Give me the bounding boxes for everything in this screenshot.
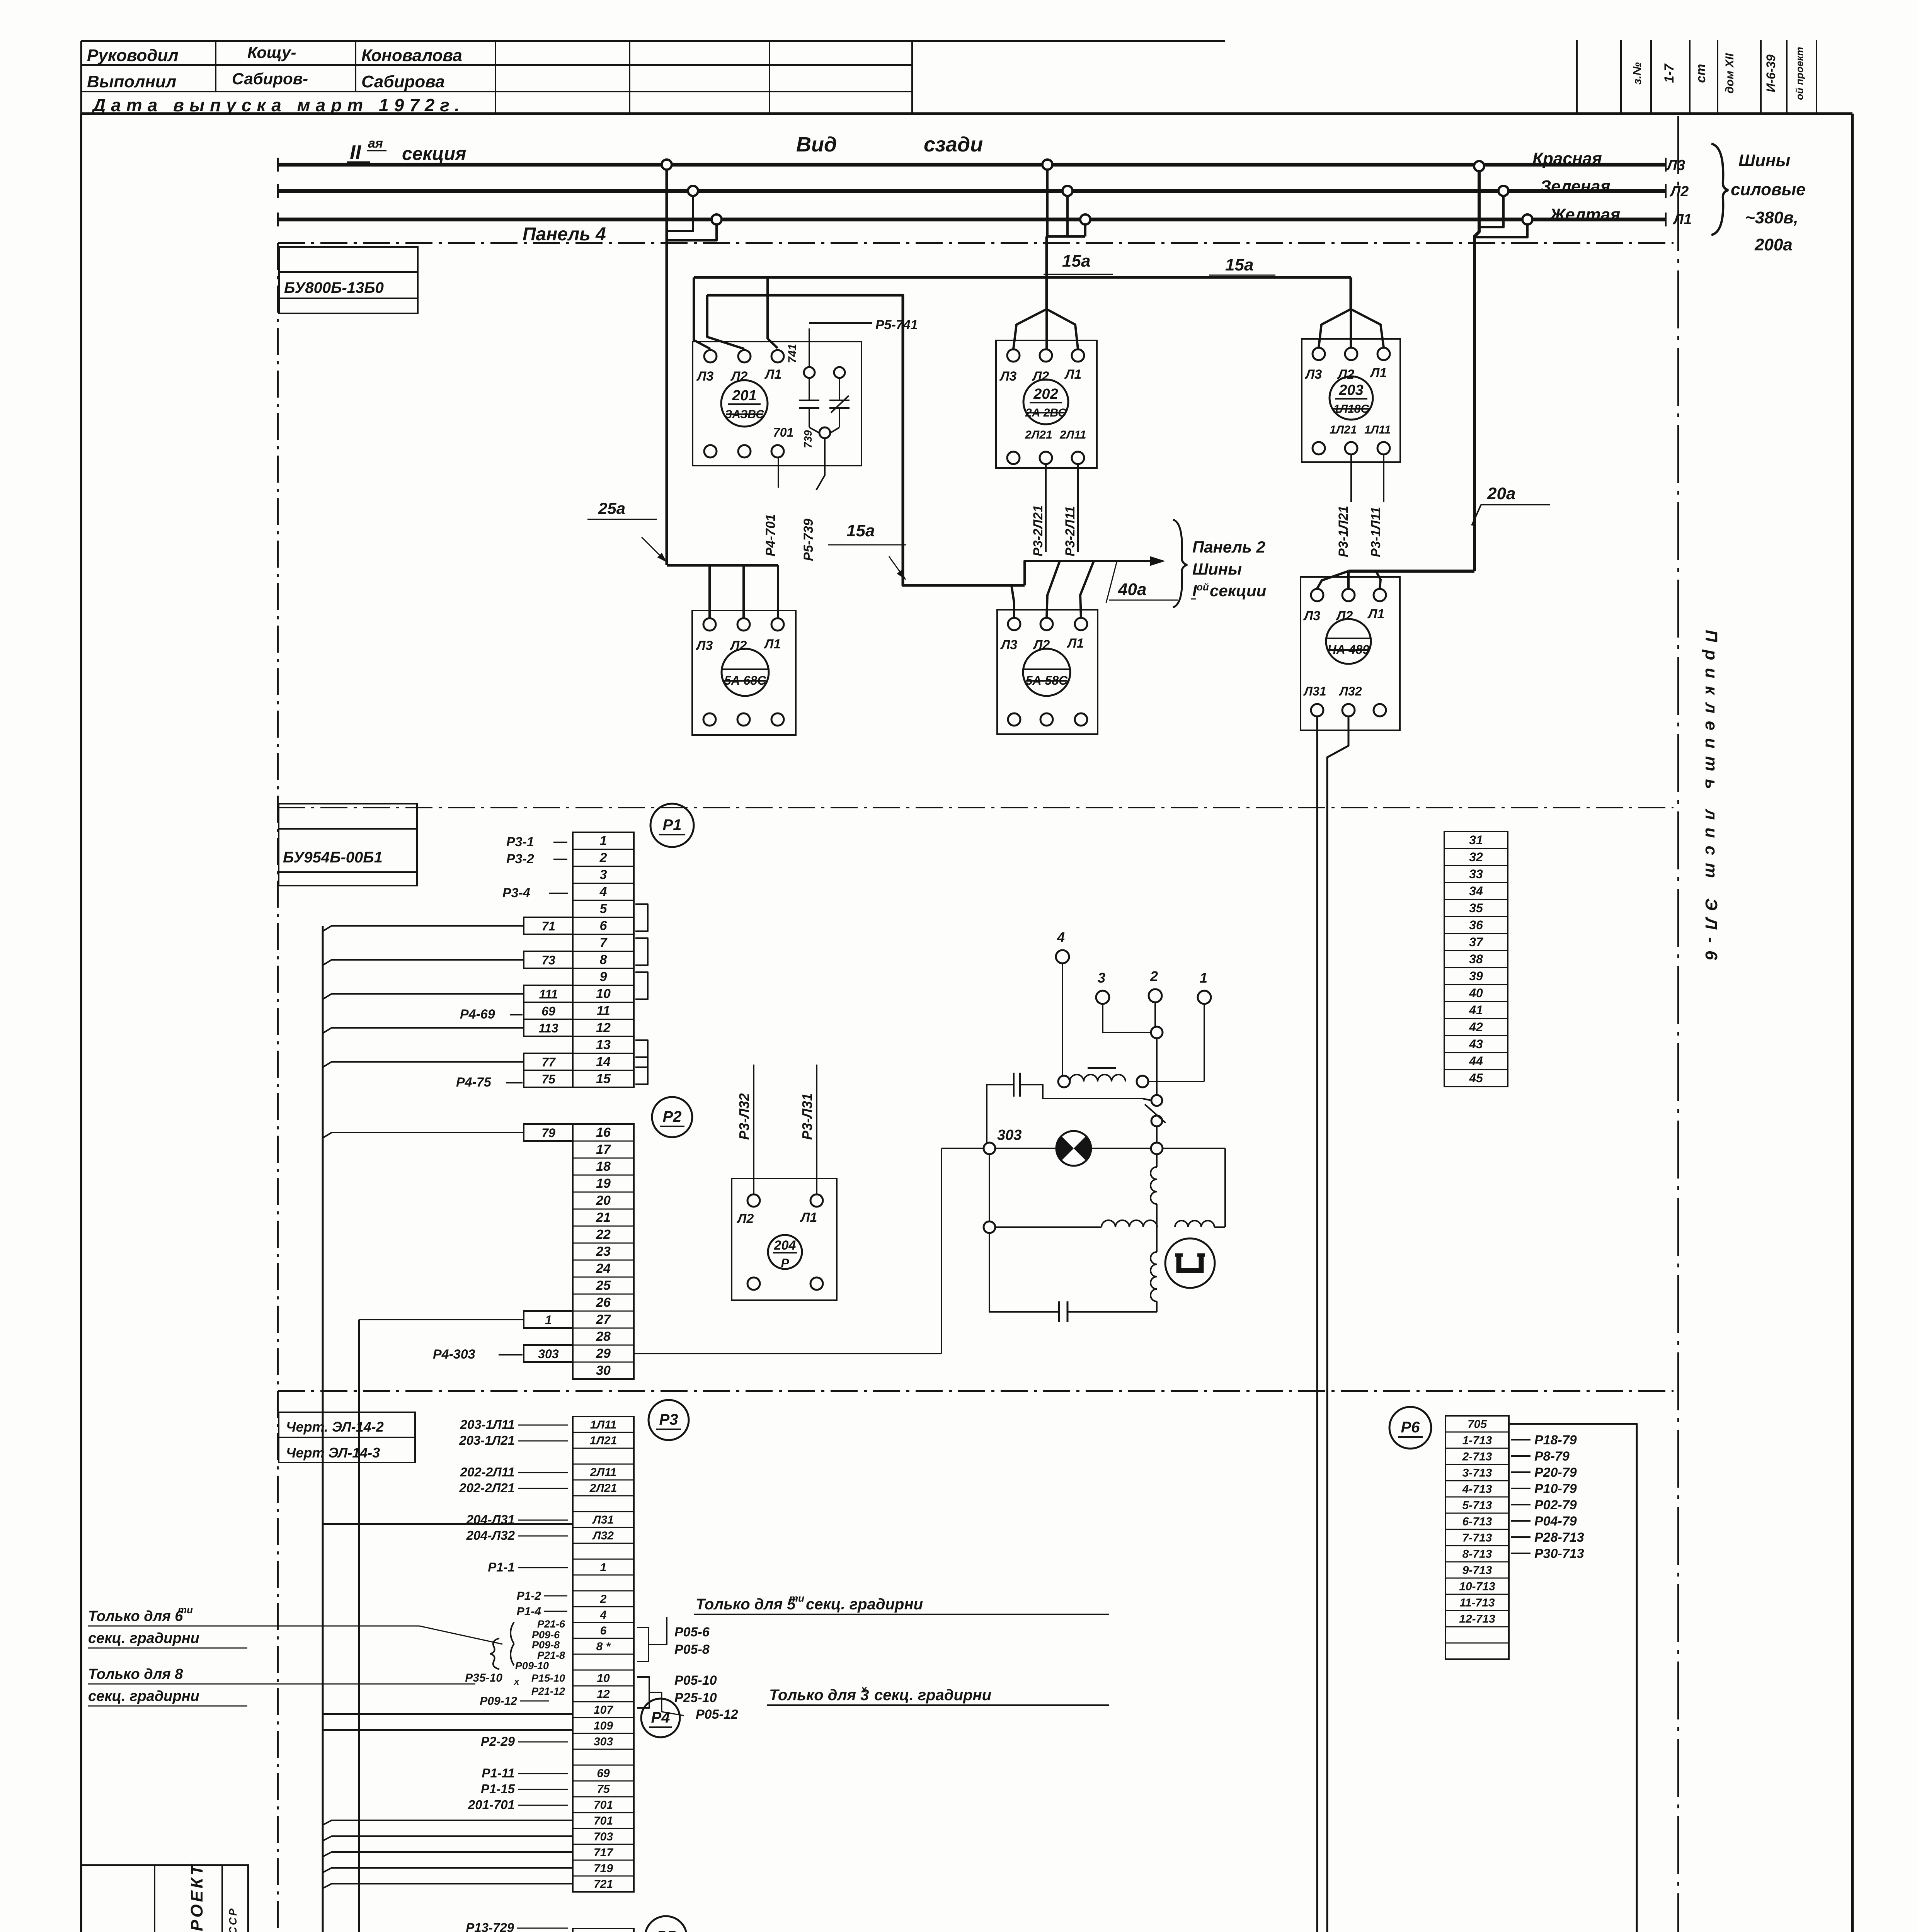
svg-text:Л31: Л31: [1303, 684, 1326, 698]
junction node 2/3: [1151, 1027, 1163, 1038]
node tap L1 middle: [1080, 214, 1090, 224]
harness branches to P3 rows: [323, 1523, 573, 1525]
svg-text:12: 12: [597, 1688, 610, 1701]
svg-text:Коновалова: Коновалова: [361, 46, 462, 65]
svg-text:15а: 15а: [1225, 255, 1253, 274]
terminal 3: [1096, 991, 1109, 1004]
svg-text:202-2Л21: 202-2Л21: [459, 1481, 515, 1495]
svg-text:Л1: Л1: [764, 367, 781, 382]
title block lower-left: [81, 1865, 248, 1932]
svg-text:Л1: Л1: [1672, 211, 1692, 228]
left tap drop wires: [668, 196, 693, 231]
svg-text:13: 13: [596, 1037, 611, 1052]
svg-text:ТЯЖПРОМЭЛЕКТРОПРОЕКТ: ТЯЖПРОМЭЛЕКТРОПРОЕКТ: [187, 1863, 206, 1932]
left link wire to strip: [941, 1148, 942, 1354]
svg-text:2-713: 2-713: [1462, 1451, 1492, 1463]
svg-text:113: 113: [538, 1021, 558, 1035]
svg-text:Л3: Л3: [1666, 157, 1685, 173]
node tap L2 middle: [1062, 186, 1073, 196]
svg-text:Р05-10: Р05-10: [674, 1673, 717, 1688]
svg-text:79: 79: [541, 1126, 555, 1140]
P1 right pair brackets: [635, 904, 648, 931]
svg-text:20а: 20а: [1487, 484, 1515, 503]
svg-text:19: 19: [596, 1176, 611, 1191]
terminal strip 31-45: [1444, 832, 1508, 1087]
svg-text:Дата выпуска март 1972г.: Дата выпуска март 1972г.: [91, 95, 465, 115]
svg-text:Р3-Л31: Р3-Л31: [799, 1093, 815, 1140]
svg-text:БУ954Б-00Б1: БУ954Б-00Б1: [283, 849, 383, 866]
svg-text:х: х: [513, 1677, 520, 1687]
svg-text:2Л11: 2Л11: [590, 1466, 616, 1479]
svg-text:201-701: 201-701: [468, 1798, 515, 1812]
lower junction: [984, 1221, 995, 1233]
svg-text:Р09-12: Р09-12: [480, 1695, 517, 1708]
svg-text:Р4: Р4: [651, 1709, 670, 1726]
svg-text:секция: секция: [402, 144, 466, 164]
svg-text:Р8-79: Р8-79: [1534, 1449, 1570, 1464]
svg-text:Л3: Л3: [1000, 638, 1017, 652]
P6 right labels: [1511, 1439, 1531, 1440]
terminal 4: [1056, 950, 1069, 963]
svg-text:22: 22: [596, 1227, 611, 1242]
terminal strip P1 rows 1-15: [573, 832, 634, 1087]
svg-text:Р04-79: Р04-79: [1534, 1514, 1577, 1529]
svg-text:Р15-10: Р15-10: [531, 1672, 565, 1684]
svg-text:Л1: Л1: [1066, 636, 1084, 651]
svg-text:39: 39: [1469, 969, 1483, 983]
svg-text:73: 73: [541, 953, 555, 967]
svg-text:27: 27: [596, 1312, 611, 1327]
svg-text:Л3: Л3: [1304, 367, 1322, 382]
svg-text:Р3-1Л21: Р3-1Л21: [1336, 506, 1351, 557]
svg-text:Только для 8: Только для 8: [88, 1666, 183, 1682]
svg-text:6: 6: [600, 1624, 607, 1637]
svg-text:Черт ЭЛ-14-3: Черт ЭЛ-14-3: [286, 1445, 380, 1461]
svg-text:1Л21: 1Л21: [590, 1434, 617, 1447]
drop to 201 Л2: [707, 295, 744, 349]
svg-text:Л1: Л1: [1367, 607, 1384, 621]
drop to 201 Л3: [694, 277, 710, 349]
aux contact switch: [1151, 1095, 1162, 1106]
svg-text:26: 26: [596, 1295, 611, 1310]
svg-text:Р1-11: Р1-11: [482, 1766, 515, 1780]
P1 jumper tag boxes: [524, 917, 573, 934]
svg-text:31: 31: [1469, 833, 1483, 847]
svg-text:4: 4: [599, 884, 607, 899]
svg-text:21: 21: [596, 1210, 611, 1225]
svg-text:1Л11: 1Л11: [1364, 423, 1391, 436]
svg-text:Р21-12: Р21-12: [531, 1685, 565, 1697]
svg-text:Красная: Красная: [1532, 149, 1602, 168]
svg-text:202-2Л11: 202-2Л11: [460, 1465, 515, 1479]
top-right rotated header cells: [1576, 40, 1578, 114]
svg-text:33: 33: [1469, 867, 1483, 881]
svg-text:1Л11: 1Л11: [590, 1418, 616, 1431]
svg-text:203-1Л21: 203-1Л21: [459, 1433, 515, 1447]
svg-text:40: 40: [1469, 986, 1483, 1000]
svg-text:Р5: Р5: [657, 1928, 676, 1932]
svg-text:40а: 40а: [1118, 580, 1146, 599]
svg-text:5: 5: [600, 901, 608, 916]
svg-text:Руководил: Руководил: [87, 46, 179, 65]
wire Р4-701: [778, 458, 779, 488]
svg-text:75: 75: [597, 1783, 610, 1796]
svg-text:Желтая: Желтая: [1549, 205, 1620, 224]
svg-text:17: 17: [596, 1142, 611, 1157]
svg-text:Л1: Л1: [800, 1210, 817, 1225]
svg-text:Р: Р: [781, 1256, 789, 1270]
svg-text:30: 30: [596, 1363, 611, 1378]
drop into 203: [1350, 277, 1352, 309]
contactor block 201 (ЗАЗВС): [693, 342, 861, 466]
P5 circle: [645, 1916, 687, 1932]
terminal strip P1 circle: [650, 804, 694, 847]
svg-text:ст: ст: [1694, 64, 1708, 83]
drawing ref box Черт ЭЛ-14: [279, 1412, 415, 1463]
svg-text:Л31: Л31: [592, 1514, 614, 1526]
svg-text:701: 701: [773, 425, 793, 439]
P4 circle: [641, 1699, 680, 1737]
svg-text:Р10-79: Р10-79: [1534, 1481, 1577, 1496]
svg-text:Р20-79: Р20-79: [1534, 1465, 1577, 1480]
svg-text:15а: 15а: [846, 521, 875, 540]
svg-text:Р02-79: Р02-79: [1534, 1498, 1577, 1512]
svg-text:ая: ая: [368, 136, 383, 151]
svg-text:303: 303: [594, 1735, 613, 1748]
harness trunk A: [322, 926, 324, 1932]
terminal strip P6 rows: [1445, 1416, 1509, 1659]
svg-text:з.№: з.№: [1631, 62, 1644, 85]
svg-text:20: 20: [596, 1193, 611, 1208]
svg-text:Р4-69: Р4-69: [460, 1007, 495, 1022]
20a line to ЧА489: [1348, 570, 1474, 573]
wire 705 to С1 splice: [1509, 1424, 1637, 1932]
node tap L2 left: [688, 186, 698, 196]
svg-text:Кощу-: Кощу-: [247, 43, 296, 61]
svg-text:16: 16: [596, 1125, 611, 1140]
svg-text:секц. градирни: секц. градирни: [874, 1687, 991, 1704]
svg-text:111: 111: [539, 987, 558, 1001]
svg-text:37: 37: [1469, 935, 1484, 949]
terminal strip P5 rows: [573, 1929, 634, 1932]
svg-text:204: 204: [774, 1238, 796, 1253]
terminal 1: [1198, 991, 1211, 1004]
P2 jumper tags: [524, 1124, 573, 1141]
svg-text:1: 1: [600, 1561, 607, 1574]
wire row303 to motor node: [634, 1353, 941, 1354]
svg-text:Шины: Шины: [1192, 560, 1242, 578]
svg-text:28: 28: [596, 1329, 611, 1344]
node tap L1 right: [1522, 214, 1532, 224]
svg-text:717: 717: [594, 1846, 613, 1859]
branches to P1 tags: [323, 926, 524, 931]
svg-text:201: 201: [732, 388, 756, 404]
svg-text:Л32: Л32: [592, 1529, 614, 1542]
bus L3 (Красная): [278, 163, 1666, 167]
svg-text:6: 6: [600, 918, 608, 933]
lower feeder to 5A68C: [667, 564, 778, 567]
svg-text:Л1: Л1: [763, 637, 781, 651]
page frame: [80, 114, 82, 1932]
svg-text:секц. градирни: секц. градирни: [88, 1630, 199, 1646]
svg-text:10: 10: [597, 1672, 610, 1685]
svg-text:2Л21: 2Л21: [1025, 429, 1052, 441]
svg-text:35: 35: [1469, 901, 1483, 915]
fuse block 5А 58С: [997, 610, 1098, 734]
svg-text:Р6: Р6: [1401, 1419, 1420, 1436]
svg-text:739: 739: [802, 430, 814, 448]
svg-text:2: 2: [600, 1593, 607, 1605]
second feeder line to 5А58С: [707, 295, 1025, 585]
svg-text:Р1-1: Р1-1: [488, 1560, 515, 1574]
svg-text:1-7: 1-7: [1662, 63, 1677, 83]
svg-text:Выполнил: Выполнил: [87, 72, 176, 91]
svg-text:Только для 3: Только для 3: [769, 1687, 869, 1704]
svg-text:Р4-75: Р4-75: [456, 1075, 492, 1090]
svg-text:5-713: 5-713: [1462, 1499, 1492, 1512]
node tap L1 left: [712, 214, 722, 224]
svg-text:9-713: 9-713: [1462, 1564, 1492, 1577]
svg-text:Р30-713: Р30-713: [1534, 1546, 1584, 1561]
svg-text:24: 24: [596, 1261, 611, 1276]
middle bus taps above 202: [1042, 160, 1052, 170]
svg-text:43: 43: [1469, 1037, 1483, 1051]
wires Р3-1Л21 / Р3-1Л11: [1350, 455, 1352, 502]
svg-text:703: 703: [594, 1830, 613, 1843]
svg-text:25а: 25а: [598, 499, 625, 517]
svg-text:705: 705: [1468, 1418, 1487, 1431]
svg-text:701: 701: [594, 1799, 613, 1811]
svg-text:Сабирова: Сабирова: [361, 72, 445, 91]
svg-text:~380в,: ~380в,: [1745, 208, 1798, 227]
aux switch contacts 741/739 in block 201: [804, 367, 815, 378]
svg-text:х: х: [860, 1683, 867, 1695]
right branch down: [1224, 1148, 1226, 1227]
harness trunk B: [359, 1319, 524, 1320]
wire Р5-739: [816, 439, 825, 490]
node tap L2 right: [1498, 186, 1508, 196]
svg-text:Черт. ЭЛ-14-2: Черт. ЭЛ-14-2: [286, 1419, 384, 1435]
svg-text:11-713: 11-713: [1459, 1597, 1495, 1609]
svg-text:1-713: 1-713: [1462, 1434, 1492, 1447]
top title table: [81, 40, 1225, 42]
svg-text:1: 1: [1200, 970, 1207, 986]
junction J2: [1151, 1143, 1163, 1154]
svg-text:Вид: Вид: [796, 133, 837, 156]
svg-text:Л3: Л3: [999, 369, 1016, 384]
svg-text:Только для 5: Только для 5: [696, 1596, 796, 1613]
svg-text:32: 32: [1469, 850, 1483, 864]
svg-text:3-713: 3-713: [1462, 1467, 1492, 1480]
wires Л31/Л32 down to splice: [1316, 716, 1318, 1932]
svg-text:ой проект: ой проект: [1794, 47, 1805, 100]
svg-text:Р1: Р1: [663, 816, 682, 833]
svg-text:Только для 6: Только для 6: [88, 1608, 183, 1624]
svg-text:сзади: сзади: [924, 133, 983, 156]
svg-text:701: 701: [594, 1815, 613, 1827]
svg-text:8-713: 8-713: [1462, 1548, 1492, 1561]
svg-text:Р3-2: Р3-2: [506, 852, 534, 866]
svg-text:Л3: Л3: [696, 369, 713, 384]
svg-text:109: 109: [594, 1719, 613, 1732]
svg-text:II: II: [350, 141, 361, 164]
svg-text:Шины: Шины: [1738, 151, 1790, 170]
drop into 202 candelabra: [1013, 309, 1047, 349]
svg-text:Панель 4: Панель 4: [523, 224, 606, 245]
svg-text:Л32: Л32: [1339, 684, 1362, 698]
terminal strip P2 rows 16-30: [573, 1124, 634, 1379]
svg-text:1Л21: 1Л21: [1330, 423, 1357, 436]
svg-text:3: 3: [1098, 970, 1105, 986]
svg-text:15а: 15а: [1062, 252, 1090, 270]
svg-text:41: 41: [1469, 1003, 1483, 1017]
rotor winding vertical: [1151, 1252, 1157, 1301]
svg-text:8 *: 8 *: [596, 1640, 611, 1653]
brace for шины силовые: [1711, 144, 1728, 235]
svg-text:ти: ти: [789, 1592, 804, 1604]
svg-text:42: 42: [1469, 1020, 1483, 1034]
svg-text:Р05-8: Р05-8: [674, 1642, 710, 1657]
svg-text:10: 10: [596, 986, 611, 1001]
svg-text:2: 2: [1150, 968, 1158, 984]
svg-text:200а: 200а: [1754, 235, 1793, 254]
feeder to 5A58C upper bus with 40a arrow: [1025, 561, 1159, 585]
contactor block 202 (2А 2ВС): [996, 340, 1097, 468]
svg-text:силовые: силовые: [1731, 180, 1806, 199]
svg-text:107: 107: [594, 1704, 613, 1716]
svg-text:15: 15: [596, 1071, 611, 1086]
svg-text:303: 303: [997, 1127, 1021, 1143]
svg-text:14: 14: [596, 1054, 611, 1069]
svg-text:4-713: 4-713: [1462, 1483, 1492, 1496]
transformer coil: [1058, 1076, 1070, 1087]
bus L1 (Желтая): [278, 218, 1666, 221]
svg-text:Р5-741: Р5-741: [875, 318, 918, 332]
svg-text:23: 23: [596, 1244, 611, 1259]
svg-text:Р21-8: Р21-8: [537, 1650, 565, 1661]
brace rows 6-8: [511, 1622, 514, 1665]
svg-text:Р09-10: Р09-10: [515, 1660, 549, 1672]
brace панель 2: [1173, 520, 1187, 607]
svg-text:Р1-4: Р1-4: [517, 1605, 541, 1618]
bus tap junctions left: [662, 160, 672, 170]
svg-text:18: 18: [596, 1159, 611, 1174]
svg-text:Р13-729: Р13-729: [466, 1920, 514, 1932]
svg-text:44: 44: [1469, 1054, 1483, 1068]
svg-text:36: 36: [1469, 918, 1483, 932]
stator windings horizontal: [995, 1226, 1102, 1228]
svg-text:секц. градирни: секц. градирни: [806, 1596, 923, 1613]
panel 4 boundary dash-dot: [278, 242, 1674, 244]
wires Р3-2Л21 / Р3-2Л11: [1045, 464, 1047, 552]
svg-text:Р05-6: Р05-6: [674, 1625, 710, 1639]
svg-text:202: 202: [1033, 386, 1058, 402]
svg-text:Р2: Р2: [663, 1108, 682, 1125]
svg-text:69: 69: [541, 1004, 555, 1018]
svg-text:Р35-10: Р35-10: [465, 1672, 502, 1684]
svg-text:секции: секции: [1210, 582, 1266, 600]
svg-text:Минмонтажспецстрой СССР: Минмонтажспецстрой СССР: [227, 1907, 239, 1932]
svg-text:Л2: Л2: [1032, 369, 1049, 384]
svg-text:6-713: 6-713: [1462, 1515, 1492, 1528]
svg-text:Зеленая: Зеленая: [1540, 177, 1611, 196]
P3 circle: [649, 1400, 689, 1440]
leads Р3-Л32 / Р3-Л31: [753, 1065, 754, 1194]
svg-text:Р3-2Л21: Р3-2Л21: [1031, 505, 1045, 556]
svg-text:38: 38: [1469, 952, 1483, 966]
svg-text:203: 203: [1338, 382, 1363, 398]
svg-text:Р3-Л32: Р3-Л32: [736, 1093, 752, 1140]
fuse block ЧА 489: [1301, 577, 1400, 730]
motor symbol: [1165, 1238, 1215, 1288]
svg-text:10-713: 10-713: [1459, 1580, 1495, 1593]
svg-text:71: 71: [541, 919, 555, 933]
svg-text:Р21-6: Р21-6: [537, 1618, 565, 1630]
svg-text:45: 45: [1469, 1071, 1483, 1085]
svg-text:Р09-8: Р09-8: [532, 1639, 560, 1651]
svg-text:2Л21: 2Л21: [589, 1482, 617, 1495]
svg-text:34: 34: [1469, 884, 1483, 898]
svg-text:4: 4: [600, 1609, 607, 1621]
svg-text:ой: ой: [1197, 581, 1209, 593]
bus L2 (Зеленая): [278, 189, 1666, 193]
svg-text:Панель 2: Панель 2: [1192, 538, 1265, 556]
svg-text:69: 69: [597, 1767, 610, 1780]
svg-text:Р28-713: Р28-713: [1534, 1530, 1584, 1545]
svg-text:8: 8: [600, 952, 607, 967]
svg-text:7: 7: [600, 935, 608, 950]
terminal strip P2 circle: [652, 1097, 692, 1137]
svg-text:75: 75: [541, 1072, 556, 1086]
indicator lamp: [1056, 1131, 1091, 1166]
svg-text:дом XII: дом XII: [1723, 53, 1736, 94]
svg-text:Р4-303: Р4-303: [433, 1347, 475, 1362]
svg-text:77: 77: [541, 1055, 556, 1069]
svg-text:Л3: Л3: [1303, 609, 1320, 623]
capacitor bottom: [989, 1233, 1059, 1312]
svg-text:Р1-2: Р1-2: [517, 1590, 541, 1602]
40a dimension label: [1106, 561, 1117, 603]
right tap drop wires: [1478, 196, 1503, 227]
relay block 204 (Р): [732, 1179, 837, 1300]
svg-text:Р2-29: Р2-29: [481, 1734, 515, 1748]
svg-text:Приклеить лист ЭЛ-6: Приклеить лист ЭЛ-6: [1702, 630, 1721, 968]
svg-text:4: 4: [1057, 929, 1065, 945]
contactor block 203 (1Л18С): [1302, 339, 1400, 462]
svg-text:719: 719: [594, 1862, 613, 1875]
svg-text:203-1Л11: 203-1Л11: [460, 1417, 515, 1432]
svg-text:Р3-1: Р3-1: [506, 835, 534, 849]
svg-text:И-6-39: И-6-39: [1764, 54, 1778, 92]
svg-text:721: 721: [594, 1878, 613, 1891]
svg-text:12: 12: [596, 1020, 611, 1035]
svg-text:Р3-1Л11: Р3-1Л11: [1369, 507, 1383, 557]
svg-text:3: 3: [600, 867, 607, 882]
svg-text:7-713: 7-713: [1462, 1532, 1492, 1544]
glue line (линия склейки): [1677, 116, 1679, 1932]
svg-text:Р4-701: Р4-701: [763, 514, 778, 556]
svg-text:Р5-739: Р5-739: [801, 519, 816, 561]
svg-text:1: 1: [545, 1313, 552, 1327]
svg-text:Л2: Л2: [736, 1211, 754, 1226]
svg-text:25: 25: [596, 1278, 611, 1293]
svg-text:Л2: Л2: [1669, 184, 1689, 200]
svg-text:9: 9: [600, 969, 607, 984]
svg-text:2: 2: [599, 850, 607, 865]
terminal 2: [1149, 989, 1162, 1002]
feeder 15a horizontal: [694, 276, 1351, 279]
svg-text:Р1-15: Р1-15: [481, 1782, 515, 1796]
